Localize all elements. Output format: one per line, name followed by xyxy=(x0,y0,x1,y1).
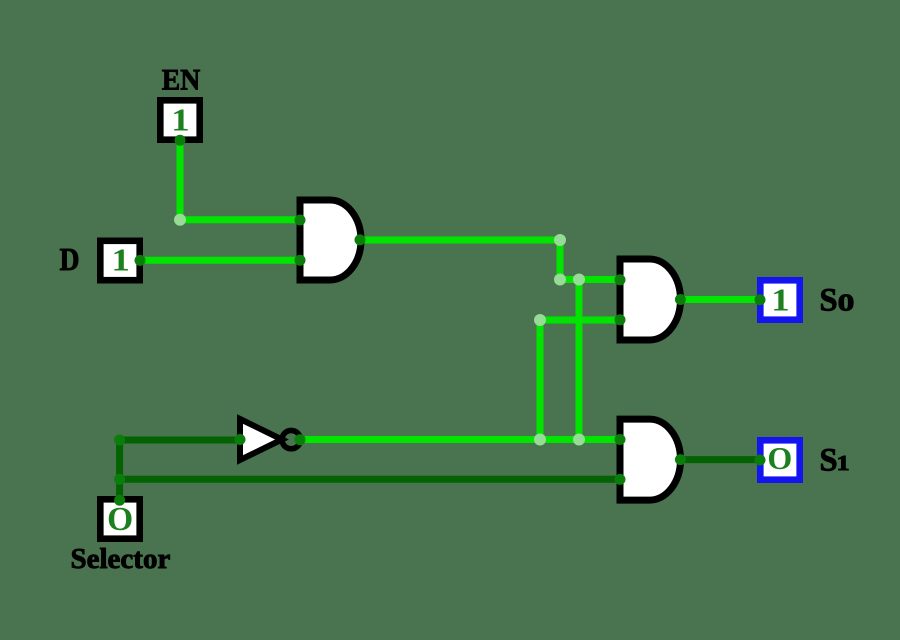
svg-text:1: 1 xyxy=(112,243,130,278)
svg-text:S: S xyxy=(820,442,838,478)
svg-text:O: O xyxy=(767,440,792,476)
svg-text:S: S xyxy=(820,282,838,318)
svg-text:o: o xyxy=(838,281,855,318)
svg-text:Selector: Selector xyxy=(71,543,171,575)
svg-text:O: O xyxy=(107,501,133,538)
svg-text:D: D xyxy=(60,242,80,277)
svg-text:1: 1 xyxy=(771,283,789,318)
svg-text:1: 1 xyxy=(171,103,189,138)
svg-text:EN: EN xyxy=(162,64,201,97)
svg-text:1: 1 xyxy=(837,452,850,475)
